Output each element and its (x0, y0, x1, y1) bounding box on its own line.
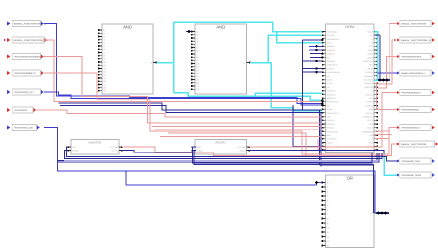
svg-text:I18: I18 (196, 88, 199, 91)
svg-text:I18: I18 (103, 87, 106, 90)
svg-text:TRU(1:0): TRU(1:0) (327, 119, 335, 122)
output port Q10 +PSCHARGE_OMN2 (397, 173, 400, 177)
svg-text:I4: I4 (196, 43, 198, 46)
svg-text:I13: I13 (196, 72, 199, 75)
svg-text:I12: I12 (196, 69, 199, 72)
wire navy bus a (59, 103, 323, 110)
component U6 ATEINTC (195, 140, 247, 155)
wire navy stub e (302, 71, 322, 73)
svg-text:UBM: UBM (327, 116, 331, 119)
wire cyan top run (174, 22, 323, 32)
svg-text:TCDHD(3:0): TCDHD(3:0) (327, 138, 337, 141)
wire cyan up branch (268, 35, 322, 62)
wire cyan lower left (174, 93, 323, 101)
component U4 MONITOR (71, 140, 119, 155)
svg-text:+PSCHARGEGHSOMA(5:0): +PSCHARGEGHSOMA(5:0) (14, 56, 42, 59)
wire cyan mid run (255, 92, 322, 94)
svg-text:HDOSFH(4:0): HDOSFH(4:0) (327, 130, 339, 133)
junction dots and bus taps (188, 30, 191, 33)
svg-text:VL: VL (371, 38, 373, 41)
svg-text:I8: I8 (196, 56, 198, 59)
wire net P7 branch (126, 171, 317, 185)
svg-text:I15: I15 (196, 78, 199, 81)
svg-text:PDO: PDO (369, 123, 373, 126)
svg-text:MANUAL_FUNCTIONSOME_A: MANUAL_FUNCTIONSOME_A (401, 39, 431, 42)
input port P6 +PSCHARGE (7, 108, 10, 112)
wire net P6 (37, 110, 323, 117)
svg-text:I4: I4 (103, 42, 105, 45)
wire net P2 (44, 40, 322, 102)
svg-text:SMRLCDT: SMRLCDT (327, 49, 337, 52)
input port P4 +PSCHARGENB(5:TS (7, 71, 10, 75)
wire band line5 (320, 164, 374, 166)
wire riser Q1 (378, 24, 397, 81)
wire net P1 (44, 24, 322, 104)
svg-text:I0: I0 (327, 181, 329, 184)
wire cyan vertical left (173, 22, 175, 93)
svg-text:I8: I8 (103, 55, 105, 58)
svg-text:RFD(1:0): RFD(1:0) (366, 71, 374, 74)
svg-text:I11: I11 (103, 64, 106, 67)
svg-text:I1: I1 (196, 34, 198, 37)
svg-text:I7: I7 (103, 51, 105, 54)
wire salmon fill b (160, 135, 322, 137)
svg-text:+PSCHARGESOMES: +PSCHARGESOMES (401, 56, 422, 59)
svg-text:ROCFFE(5:0): ROCFFE(5:0) (327, 101, 338, 104)
svg-text:I3: I3 (103, 39, 105, 42)
wire cyan right of U3 (374, 32, 377, 81)
wire cyan mid branch (254, 93, 256, 96)
svg-text:I11: I11 (196, 66, 199, 69)
svg-text:AND: AND (216, 25, 225, 30)
svg-text:I0: I0 (196, 30, 198, 33)
svg-text:CFROU(2:0): CFROU(2:0) (363, 60, 373, 63)
svg-text:I2: I2 (327, 190, 329, 193)
wire cyan AND2 output (250, 62, 271, 64)
svg-text:MANUAL_FUNCTIONSOM: MANUAL_FUNCTIONSOM (401, 143, 427, 146)
output port Q4 MANBL+PSCHARGE(5:J (397, 71, 400, 75)
svg-text:OOOODSO(1:0): OOOODSO(1:0) (327, 71, 341, 74)
wire navy elbow to U3 (293, 105, 322, 146)
wire salmon right stub c (374, 137, 389, 139)
svg-text:I12: I12 (103, 67, 106, 70)
svg-text:I9: I9 (103, 58, 105, 61)
wire riser Q2 (378, 40, 394, 84)
svg-text:ACGO(3:0): ACGO(3:0) (364, 75, 373, 78)
svg-text:I13: I13 (103, 71, 106, 74)
svg-text:CIPB1: CIPB1 (345, 25, 354, 29)
wire net ATEINTC L2 (194, 151, 374, 214)
wire cyan AND1 output (157, 62, 174, 64)
svg-text:SGM(5:0): SGM(5:0) (365, 93, 373, 96)
svg-text:LQ+OM: LQ+OM (239, 149, 246, 152)
svg-text:PMC: PMC (369, 97, 374, 100)
input port P7 +PSCHARGE_(200 (7, 125, 10, 129)
svg-text:OR: OR (347, 176, 353, 181)
svg-text:I1: I1 (103, 32, 105, 35)
svg-text:DUBHG(7:0): DUBHG(7:0) (363, 116, 374, 119)
wire blue into U3 a (309, 45, 322, 47)
wire stub band left a (58, 160, 60, 161)
svg-text:I10: I10 (327, 226, 330, 229)
wire navy stub pin a (310, 53, 322, 55)
wire blue into U3 b (309, 49, 322, 51)
svg-text:MANBL+PSCHARGE(5:J: MANBL+PSCHARGE(5:J (401, 72, 425, 75)
wire net P5 (44, 92, 322, 105)
svg-text:TG(4:0): TG(4:0) (367, 30, 374, 33)
input port P3 +PSCHARGEGHSOMA(5:0) (7, 54, 10, 58)
wire navy drop from U3 pin (302, 39, 322, 41)
svg-text:SFTAG: SFTAG (327, 82, 333, 85)
svg-text:AEF(5:0): AEF(5:0) (366, 112, 374, 115)
svg-text:NRNN(1:0): NRNN(1:0) (327, 93, 336, 96)
wire navy right pin2 (374, 34, 380, 36)
svg-text:ETBR: ETBR (368, 67, 373, 70)
svg-text:ALT_VME: ALT_VME (110, 146, 119, 149)
svg-text:ALT_VME: ALT_VME (237, 146, 246, 149)
svg-text:I11: I11 (327, 231, 330, 234)
wire salmon right stub a (374, 130, 389, 132)
svg-text:THER: THER (196, 146, 202, 149)
svg-text:+PSCHARGE: +PSCHARGE (14, 109, 28, 112)
svg-text:ESNEU: ESNEU (367, 101, 374, 104)
svg-text:I2: I2 (103, 35, 105, 38)
svg-text:I14: I14 (196, 75, 199, 78)
wire blue U2 pin1 stub (186, 31, 192, 33)
wire net MONITOR L1 (67, 147, 398, 161)
svg-text:GHOHGTS: GHOHGTS (327, 90, 337, 93)
svg-text:+PSCHARGE(5:MLS: +PSCHARGE(5:MLS (401, 92, 421, 95)
svg-text:I10: I10 (196, 62, 199, 65)
svg-text:VRCCI: VRCCI (367, 53, 373, 56)
wire salmon right stub b (374, 134, 391, 136)
svg-text:EOBCU(5:0): EOBCU(5:0) (327, 30, 337, 33)
svg-text:+PSCHARGE_(200: +PSCHARGE_(200 (14, 127, 34, 130)
svg-text:PTEUETT(4:0): PTEUETT(4:0) (327, 112, 339, 115)
svg-text:I3: I3 (196, 40, 198, 43)
wire salmon fill c (155, 129, 322, 131)
svg-text:I9: I9 (196, 59, 198, 62)
svg-text:HUUT(2:0): HUUT(2:0) (364, 86, 373, 89)
svg-text:MPGNM(3:0): MPGNM(3:0) (362, 130, 373, 133)
svg-text:MTTGI: MTTGI (367, 119, 373, 122)
wire net P7 main (44, 128, 375, 214)
svg-text:I9: I9 (327, 222, 329, 225)
wire net MONITOR L2 (65, 151, 383, 159)
svg-text:I3: I3 (327, 195, 329, 198)
svg-text:LONAR: LONAR (367, 56, 374, 59)
input port P2 MANUAL_FUNCTIONATIONS_AN (7, 38, 10, 42)
svg-text:UIPNOH(2:0): UIPNOH(2:0) (327, 64, 338, 67)
svg-text:IOEUTV: IOEUTV (327, 141, 334, 144)
svg-text:I2: I2 (196, 37, 198, 40)
output port Q5 +PSCHARGE(5:MLS (397, 91, 400, 95)
svg-text:FILAEPU: FILAEPU (327, 67, 335, 70)
svg-text:+PSCHARGE_OMN: +PSCHARGE_OMN (401, 160, 420, 163)
svg-text:I6: I6 (327, 208, 329, 211)
svg-text:STHTIUG: STHTIUG (327, 123, 335, 126)
wire port Q6 riser (374, 83, 397, 109)
svg-text:DVVG: DVVG (327, 42, 333, 45)
wire navy bus b (60, 105, 322, 112)
input port P1 MANUAL_FUNCTIONATOM(7:0) (7, 21, 10, 25)
svg-text:I16: I16 (103, 80, 106, 83)
wire navy stub d (302, 68, 322, 70)
svg-text:I12: I12 (327, 235, 330, 238)
wire navy vert right a (379, 35, 381, 80)
svg-text:MONITOR: MONITOR (89, 142, 102, 145)
output port Q8 MANUAL_FUNCTIONSOM (397, 142, 400, 146)
svg-text:PGG(2:0): PGG(2:0) (365, 104, 373, 107)
output port Q3 +PSCHARGESOMES (397, 55, 400, 59)
wire net P4 (44, 73, 397, 154)
svg-text:I8: I8 (327, 217, 329, 220)
svg-text:I17: I17 (103, 83, 106, 86)
wire riser OR pin1 (317, 183, 322, 186)
svg-text:+PSCHARGESMLS: +PSCHARGESMLS (401, 127, 420, 130)
svg-text:AND: AND (123, 25, 132, 30)
wire net ATEINTC out (250, 93, 397, 148)
wire band purple a (58, 153, 378, 161)
wire riser Q3 (378, 57, 397, 89)
wire net ATEINTC R2 (250, 151, 384, 153)
svg-text:I16: I16 (196, 82, 199, 85)
svg-text:I5: I5 (327, 204, 329, 207)
output port Q6 +PSCHARGESM(3 (397, 108, 400, 112)
wire navy vertical mid (301, 40, 303, 110)
wire net MONITOR out2 (122, 151, 192, 153)
svg-text:I15: I15 (103, 77, 106, 80)
svg-text:ASNCDOG: ASNCDOG (327, 97, 337, 100)
svg-text:UPMRVR: UPMRVR (327, 45, 335, 48)
svg-text:ESPB: ESPB (368, 49, 374, 52)
svg-text:I7: I7 (327, 213, 329, 216)
svg-text:I5: I5 (103, 45, 105, 48)
svg-text:I1: I1 (327, 186, 329, 189)
svg-text:HPC(3:0): HPC(3:0) (327, 127, 335, 130)
svg-text:I14: I14 (103, 74, 106, 77)
wire cyan to port Q10 (384, 153, 397, 175)
input port P5 +PSCHARGES_(3:J (7, 90, 10, 94)
wire band purple b (60, 153, 380, 162)
wire riser to band b (320, 112, 322, 166)
wire net MONITOR out (122, 147, 386, 155)
svg-text:MUR: MUR (327, 134, 332, 137)
svg-text:I7: I7 (196, 53, 198, 56)
svg-text:VOBHBUE(2:0): VOBHBUE(2:0) (327, 38, 340, 41)
svg-text:OM: OM (370, 134, 373, 137)
output port Q1 MANUAL_FUNCTIONSOM (397, 22, 400, 26)
wire salmon left elbow (318, 140, 385, 151)
svg-text:EN(2:0): EN(2:0) (367, 127, 374, 130)
wire band haze (64, 160, 378, 162)
svg-text:THVMI: THVMI (327, 108, 333, 111)
svg-text:CHCUPB: CHCUPB (327, 34, 335, 37)
wire cyan branch pin4 (277, 32, 323, 43)
wire salmon mid extra (168, 133, 397, 156)
output port Q2 MANUAL_FUNCTIONSOME_A (397, 38, 400, 42)
wire navy stub c (302, 60, 322, 62)
svg-text:SSLCE(3:0): SSLCE(3:0) (363, 79, 373, 82)
svg-text:I17: I17 (196, 85, 199, 88)
bus tap OR output (376, 212, 389, 214)
svg-text:+PSCHARGENB(5:TS: +PSCHARGENB(5:TS (14, 72, 36, 75)
wire blue port Q4 (378, 72, 397, 74)
output port Q7 +PSCHARGESMLS (397, 126, 400, 130)
svg-text:+PSCHARGES_(3:J: +PSCHARGES_(3:J (14, 91, 34, 94)
svg-text:I0: I0 (103, 29, 105, 32)
svg-text:I6: I6 (196, 50, 198, 53)
svg-text:DSBGLEH: DSBGLEH (327, 60, 336, 63)
wire riser to band a (319, 110, 321, 165)
svg-text:I6: I6 (103, 48, 105, 51)
svg-text:I5: I5 (196, 46, 198, 49)
wire salmon fill a (152, 125, 322, 127)
svg-text:I13: I13 (327, 240, 330, 243)
wire cyan down branch (271, 63, 322, 111)
AND gate U2 (195, 24, 247, 94)
svg-text:MANUAL_FUNCTIONSOM: MANUAL_FUNCTIONSOM (401, 23, 427, 26)
svg-text:ATEINTC: ATEINTC (215, 142, 226, 145)
svg-text:+PSCHARGE_OMN2: +PSCHARGE_OMN2 (401, 174, 422, 177)
svg-text:NSDDS: NSDDS (327, 79, 334, 82)
svg-text:EUAT(6:0): EUAT(6:0) (365, 82, 374, 85)
main component U3 CIPB1 (326, 24, 375, 153)
svg-text:LQ+OM: LQ+OM (112, 149, 119, 152)
svg-text:I14: I14 (327, 244, 330, 247)
svg-text:I10: I10 (103, 61, 106, 64)
svg-text:ALIGN2: ALIGN2 (72, 149, 78, 152)
svg-text:ALIGN3: ALIGN3 (196, 149, 202, 152)
svg-text:I19: I19 (103, 90, 106, 93)
OR gate U5 (326, 175, 375, 248)
svg-text:UVM(3:0): UVM(3:0) (327, 53, 335, 56)
wire net P3 (44, 57, 322, 124)
wire net ATEINTC L1 (193, 147, 373, 163)
output port Q9 +PSCHARGE_OMN (397, 159, 400, 163)
bus tap right of U3 (378, 79, 390, 81)
svg-text:MANUAL_FUNCTIONATIONS_AN: MANUAL_FUNCTIONATIONS_AN (14, 39, 48, 42)
AND gate U1 (102, 24, 153, 94)
svg-text:I4: I4 (327, 199, 329, 202)
wire navy stub pin b (310, 56, 322, 58)
svg-text:+PSCHARGESM(3: +PSCHARGESM(3 (401, 109, 420, 112)
